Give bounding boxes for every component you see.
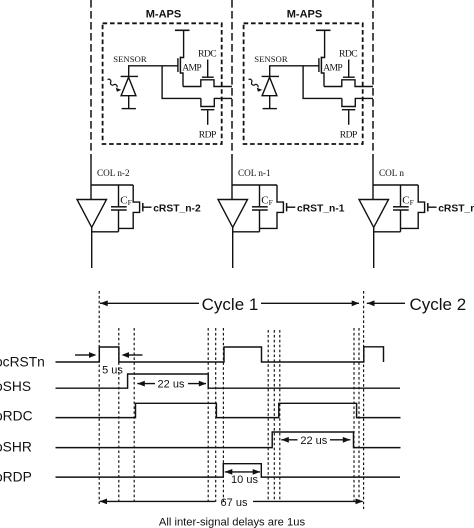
svg-text:10 us: 10 us [231,474,258,486]
wire: sensor node to RDP cell 2 [303,66,342,99]
capacitor CF top lead COL n-1 [259,185,261,206]
wire: photodiode to AMP gate cell 2 [270,66,319,77]
dashed marker: RDC second fall [358,328,360,502]
dashed marker: RDC second rise [279,330,281,502]
transistor cRST_n-1 gate bar [286,203,288,211]
wire: sensor node to RDP cell 1 [162,66,201,99]
svg-text:oSHR: oSHR [0,439,32,454]
op-amp column amplifier triangle COL n [359,200,389,228]
svg-text:ocRSTn: ocRSTn [0,354,45,369]
svg-text:AMP: AMP [323,63,342,74]
svg-text:RDC: RDC [339,49,357,60]
svg-text:SENSOR: SENSOR [113,54,147,64]
transistor RDC gate bar cell 1 [202,76,214,78]
svg-text:M-APS: M-APS [146,9,181,21]
svg-text:67 us: 67 us [221,497,248,509]
M-APS cell 1 dashed box [103,23,222,144]
Cycle 1 span arrow [100,302,199,304]
svg-text:RDP: RDP [340,129,357,140]
dashed marker: RDC fall [215,328,217,502]
dashed marker: cRSTn second rise / RDP rise [222,328,224,502]
wire: AMP source lead cell 1 [180,73,183,87]
svg-text:cRST_n: cRST_n [438,204,474,215]
capacitor CF top lead COL n [400,185,402,206]
photodiode triangle cell 2 [262,77,277,96]
transistor AMP channel bar cell 2 [320,57,322,74]
wire: loop right side with reset transistor cRST_n-1 channel [260,185,284,228]
10 us annotation (RDP) [225,471,260,473]
svg-text:M-APS: M-APS [287,9,322,21]
op-amp column amplifier triangle COL n-1 [218,200,248,228]
dashed marker: SHR fall [353,328,355,502]
svg-text:COL n-2: COL n-2 [97,168,130,178]
wire: loop bottom to column line COL n-1 [233,231,260,233]
transistor RDP channel + wire to column bus cell 2 [342,98,373,106]
photodiode triangle cell 1 [121,77,136,96]
transistor RDC gate bar cell 2 [343,76,355,78]
wire: loop right side with reset transistor cRST_n-2 channel [119,185,140,228]
dashed marker: cRSTn fall [118,328,120,502]
photodiode anode terminal bar cell 2 [263,108,277,110]
dashed marker: SHS fall [207,328,209,502]
svg-text:RDP: RDP [199,129,216,140]
waveform RDC [56,403,401,417]
capacitor CF top lead COL n-2 [118,185,120,206]
capacitor CF bottom lead COL n [400,210,402,232]
wire: photodiode to AMP gate cell 1 [129,66,178,77]
waveform cRSTn [56,347,384,362]
transistor RDC channel + wire to column bus cell 2 [324,80,373,87]
capacitor CF bottom lead COL n-1 [259,210,261,232]
capacitor CF bottom lead COL n-2 [118,210,120,232]
svg-text:cRST_n-2: cRST_n-2 [153,204,201,215]
22 us annotation (SHS) [137,383,155,385]
capacitor CF plates COL n [393,206,409,208]
cycle 1/2 boundary dashed line [363,291,365,509]
svg-text:COL n: COL n [379,168,404,178]
waveform RDP [56,464,401,477]
Cycle 2 arrow [367,302,405,304]
wire: AMP source lead cell 2 [321,73,324,87]
svg-text:AMP: AMP [182,63,201,74]
photodiode cathode bar cell 2 [262,75,279,77]
cRSTn fall pointer arrow [128,354,143,356]
svg-text:oRDC: oRDC [0,409,33,424]
svg-text:5 us: 5 us [102,365,123,377]
dashed marker: RDP fall [267,330,269,502]
transistor RDP gate lead cell 2 [348,110,350,125]
transistor cRST_n-2 gate lead [143,206,152,208]
transistor RDC gate lead cell 1 [207,60,209,77]
M-APS cell 2 dashed box [244,23,363,144]
photodiode cathode bar cell 1 [121,75,138,77]
wire: feedback loop top COL n [373,184,418,186]
transistor AMP channel bar cell 1 [179,57,181,74]
svg-text:SENSOR: SENSOR [254,54,288,64]
incident light squiggle arrow cell 1 [108,79,117,87]
incident light squiggle arrow cell 2 [249,79,258,87]
wire: column line lower solid segment COL n-1 [232,227,234,268]
wire: column line upper solid segment COL n [372,159,374,200]
wire: column line upper solid segment COL n-2 [90,159,92,200]
VDD rail bar cell 2 [316,29,331,31]
transistor RDP channel + wire to column bus cell 1 [201,98,232,106]
photodiode anode lead cell 1 [128,96,130,108]
VDD rail bar cell 1 [175,29,190,31]
wire: VDD to AMP drain cell 2 [321,30,324,57]
wire: feedback loop top COL n-1 [232,184,277,186]
photodiode anode terminal bar cell 1 [122,108,136,110]
transistor AMP gate bar cell 2 [318,58,320,72]
cRSTn rise pointer arrow [75,354,90,356]
capacitor CF plates COL n-2 [111,206,127,208]
wire: VDD to AMP drain cell 1 [180,30,183,57]
op-amp column amplifier triangle COL n-2 [77,200,107,228]
waveform SHS [56,374,401,388]
cycle 1 start boundary dashed line [98,291,100,504]
transistor RDP gate lead cell 1 [207,110,209,125]
svg-text:22 us: 22 us [158,379,185,391]
transistor RDP gate bar cell 2 [342,109,355,111]
wire: loop bottom to column line COL n [374,231,401,233]
wire: column line upper solid segment COL n-1 [231,159,233,200]
dashed marker: RDC rise [133,328,135,502]
capacitor CF plates COL n-1 [252,206,268,208]
waveform SHR [56,432,401,448]
svg-text:22 us: 22 us [300,435,327,447]
wire: loop right side with reset transistor cRST_n channel [401,185,425,228]
67 us annotation [100,500,216,502]
svg-text:Cycle 1: Cycle 1 [202,295,259,314]
wire: feedback loop top COL n-2 [91,184,133,186]
svg-text:Cycle 2: Cycle 2 [410,295,467,314]
transistor cRST_n gate bar [427,203,429,211]
transistor cRST_n-1 gate lead [287,206,296,208]
dashed marker: SHR rise [273,330,275,502]
transistor cRST_n-2 gate bar [142,203,144,211]
transistor RDC gate lead cell 2 [348,60,350,77]
svg-text:oRDP: oRDP [0,469,32,484]
transistor RDC channel + wire to column bus cell 1 [183,80,232,87]
svg-text:oSHS: oSHS [0,379,31,394]
svg-text:All inter-signal delays are 1u: All inter-signal delays are 1us [159,517,306,528]
transistor RDP gate bar cell 1 [201,109,214,111]
22 us annotation (SHR) [281,439,297,441]
svg-text:cRST_n-1: cRST_n-1 [297,204,345,215]
photodiode anode lead cell 2 [269,96,271,108]
svg-text:RDC: RDC [198,49,216,60]
wire: loop bottom to column line COL n-2 [92,231,119,233]
wire: column line lower solid segment COL n [373,227,375,268]
node COL n: column bus dashed line [372,0,374,159]
transistor AMP gate bar cell 1 [177,58,179,72]
node COL n-2: column bus dashed line [90,0,92,159]
wire: column line lower solid segment COL n-2 [91,227,93,268]
svg-text:COL n-1: COL n-1 [238,168,271,178]
transistor cRST_n gate lead [428,206,437,208]
node COL n-1: column bus dashed line [231,0,233,159]
